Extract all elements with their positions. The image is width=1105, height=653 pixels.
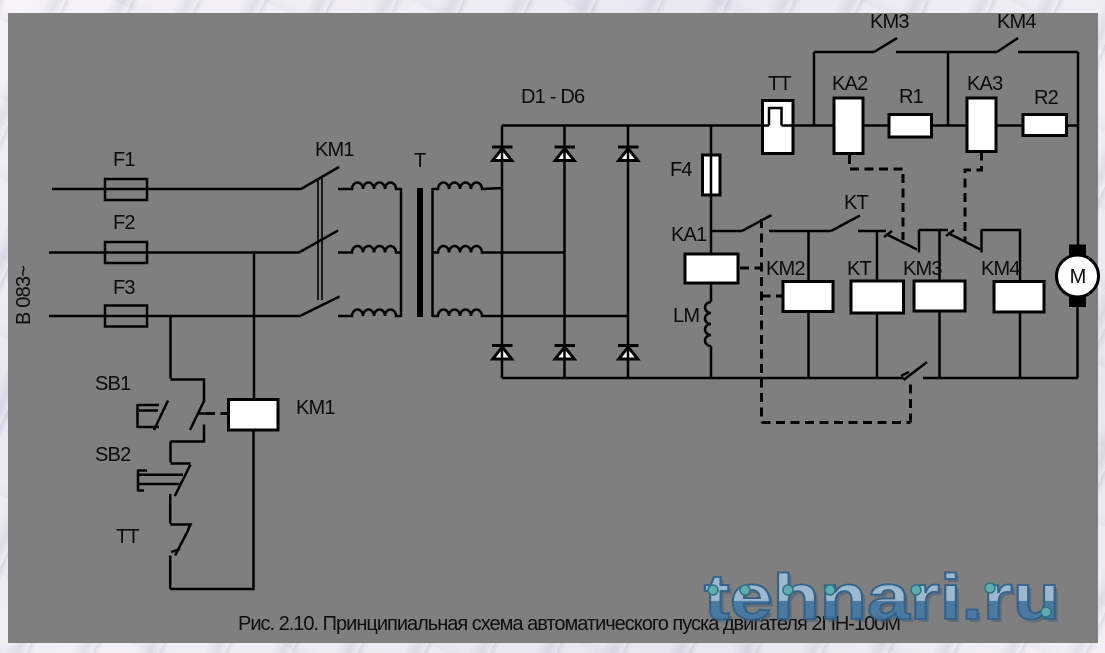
watermark tehnari.ru: [704, 561, 1063, 636]
dashed link KM2 stub: [762, 295, 784, 298]
button SB1 contact tick: [199, 412, 213, 415]
wire top branch right: [948, 51, 997, 54]
svg-text:SB2: SB2: [95, 444, 131, 466]
label TT bottom: [116, 526, 139, 548]
coil KM4: [994, 282, 1044, 313]
contact TT blade: [171, 530, 189, 556]
rectifier column 2: [563, 126, 566, 379]
button SB2 blade: [175, 465, 191, 497]
diode D3: [618, 147, 639, 161]
svg-text:KT: KT: [844, 192, 869, 214]
contact KM4 blade: [997, 38, 1018, 52]
contact KM3-NC blade: [884, 231, 917, 250]
svg-text:F4: F4: [670, 159, 692, 181]
label KT coil: [847, 258, 872, 280]
wire F2 to KM1 coil: [253, 253, 256, 400]
dashed link KA3: [965, 152, 982, 243]
transformer T primary winding 1: [338, 183, 401, 190]
wire KM3 to bus: [938, 311, 941, 378]
fuse F1: [105, 179, 147, 200]
wire KM3-NC jog: [919, 230, 940, 281]
label KA2: [832, 73, 868, 95]
label SB1: [95, 373, 131, 395]
svg-text:T: T: [414, 150, 426, 172]
svg-text:F2: F2: [113, 212, 135, 234]
button SB2 top jog: [171, 462, 191, 465]
wire top branch end: [1018, 51, 1078, 54]
resistor R2: [1023, 115, 1067, 136]
transformer T core: [417, 188, 423, 317]
dashed link KA1: [760, 219, 763, 423]
motor M brush top: [1069, 245, 1086, 256]
svg-text:KM3: KM3: [870, 11, 909, 33]
wire phase1 to KM1: [147, 188, 301, 191]
wire TT left stub: [761, 124, 769, 127]
rectifier top bus: [502, 124, 769, 127]
svg-text:KM3: KM3: [903, 258, 942, 280]
inductor LM: [705, 302, 711, 346]
wire LM to bus: [710, 346, 713, 378]
wire top branch mid: [896, 51, 948, 54]
label F1: [113, 149, 135, 171]
watermark screws: [708, 583, 1051, 617]
resistor R1: [889, 115, 932, 138]
relay KA1 coil: [685, 254, 738, 283]
wire top branch drop: [947, 52, 950, 126]
diode D2: [555, 147, 576, 161]
contactor KM1 blade1: [301, 167, 339, 189]
label T: [414, 150, 426, 172]
label KT switch: [844, 192, 869, 214]
fuse F3: [105, 306, 147, 327]
wire KM2 coil riser: [807, 231, 810, 282]
caption Рис 2.10: [238, 613, 900, 635]
rectifier column 3: [627, 126, 630, 379]
button SB1 actuator: [138, 404, 160, 428]
motor M brush bottom: [1069, 297, 1086, 308]
label TT top: [768, 73, 791, 95]
svg-text:F1: F1: [113, 149, 135, 171]
label KM4 coil: [981, 258, 1020, 280]
wire F3 to SB1: [169, 316, 172, 379]
bottom bus right part: [923, 377, 1078, 380]
svg-text:KA1: KA1: [671, 224, 707, 246]
diode D4: [492, 346, 513, 360]
transformer T primary winding 3: [338, 310, 401, 317]
wire phase2 left: [49, 251, 147, 254]
dashed link KA2: [850, 155, 904, 240]
wire motor riser: [1077, 52, 1080, 245]
wire KT coil riser: [876, 231, 879, 281]
label LM: [673, 305, 699, 327]
contact KT blade: [831, 216, 860, 232]
svg-text:F3: F3: [113, 277, 135, 299]
svg-text:TT: TT: [116, 526, 139, 548]
wire KM3 branch riser: [813, 52, 816, 126]
svg-text:В 083~: В 083~: [13, 266, 35, 325]
wire phase3 left: [49, 315, 147, 318]
svg-text:R1: R1: [899, 86, 924, 108]
transformer T secondary winding 2: [433, 246, 565, 252]
svg-text:KA2: KA2: [832, 73, 868, 95]
wire contact row mid2: [858, 230, 886, 233]
label F2: [113, 212, 135, 234]
rectifier bottom bus: [502, 377, 904, 380]
contact KM4-NC blade: [946, 230, 980, 249]
wire F4 through to KA1: [710, 126, 713, 255]
contact KM4-NC post: [980, 230, 983, 253]
button SB1 bottom jog: [171, 425, 205, 442]
dashed link SB1 to KM1: [206, 412, 228, 415]
label KM3 coil: [903, 258, 942, 280]
contact KA1 blade: [742, 215, 772, 231]
svg-text:KM2: KM2: [766, 258, 805, 280]
contact KM3 blade: [874, 38, 897, 52]
label R1: [899, 86, 924, 108]
wire phase3 to KM1: [147, 315, 301, 318]
diode D5: [555, 346, 576, 360]
wire diode crossings: [502, 147, 628, 360]
button SB1 blade left: [154, 401, 168, 431]
dashed link bottom riser: [909, 383, 912, 423]
svg-text:LM: LM: [673, 305, 699, 327]
wire bottom return: [170, 430, 253, 589]
thermal sensor TT body: [763, 101, 794, 154]
svg-text:KM4: KM4: [981, 258, 1020, 280]
wire phase1 left: [52, 188, 147, 191]
wire top branch left: [814, 51, 874, 54]
svg-text:KT: KT: [847, 258, 872, 280]
fuse F2: [105, 242, 147, 263]
svg-text:SB1: SB1: [95, 373, 131, 395]
fuse F4: [703, 155, 721, 195]
wire contact row mid1: [769, 230, 831, 233]
label KM2: [766, 258, 805, 280]
coil KT: [851, 281, 904, 313]
label KM3 top: [870, 11, 909, 33]
button SB2 actuator: [138, 470, 183, 492]
coil KM2: [783, 282, 833, 312]
label KA3: [967, 73, 1003, 95]
label KM4 top: [997, 11, 1036, 33]
contact KM3-NC post: [918, 230, 921, 253]
wire phase2 to KM1: [147, 251, 299, 254]
label KA1: [671, 224, 707, 246]
contactor KM1 blade3: [301, 297, 340, 316]
wire KT to bus: [876, 313, 879, 378]
transformer T secondary winding 1: [433, 183, 503, 190]
diode D1: [492, 147, 513, 161]
label M: [1070, 266, 1086, 288]
wire SB2 to TT: [169, 494, 172, 524]
wire KM4 to bus: [1019, 312, 1022, 378]
relay KA3 body: [967, 98, 996, 152]
transformer T primary winding 2: [338, 246, 401, 252]
relay KA2 body: [834, 98, 863, 154]
svg-text:KA3: KA3: [967, 73, 1003, 95]
wire segment between NC contacts: [940, 229, 949, 232]
transformer T secondary bus: [431, 188, 434, 317]
wire KM4-NC jog: [982, 230, 1021, 282]
label R2: [1034, 87, 1059, 109]
contact TT top bar: [170, 525, 190, 531]
wire KA1 to LM: [710, 283, 713, 302]
coil KM3: [914, 281, 965, 311]
label D1 - D6: [521, 86, 585, 108]
contactor KM1 linkage: [318, 178, 322, 300]
dashed link bottom run: [762, 421, 911, 424]
svg-text:R2: R2: [1034, 87, 1059, 109]
motor M body: [1057, 255, 1099, 297]
rectifier column 1: [501, 126, 504, 379]
label KM1 coil: [296, 397, 335, 419]
label SB2: [95, 444, 131, 466]
node B083 input text: [13, 266, 35, 325]
svg-text:KM4: KM4: [997, 11, 1036, 33]
label F4: [670, 159, 692, 181]
svg-text:tehnari.ru: tehnari.ru: [704, 561, 1060, 633]
dashed link KA1 coil stub: [740, 267, 762, 270]
svg-text:M: M: [1070, 266, 1086, 288]
diode D6: [618, 346, 639, 360]
contactor KM1 blade2: [299, 231, 338, 253]
label KM1 top: [315, 139, 354, 161]
button SB1 blade right: [190, 401, 204, 430]
wire SB1 to SB2: [169, 442, 172, 463]
wire KA1 contact row start: [711, 230, 742, 233]
transformer T primary star bar: [400, 188, 403, 317]
coil KM1: [229, 400, 279, 431]
svg-text:KM1: KM1: [296, 397, 335, 419]
transformer T secondary winding 3: [433, 310, 629, 317]
contact bottom-bus blade: [901, 362, 927, 380]
wire motor to bus: [1076, 307, 1079, 378]
thermal sensor TT heater notch: [769, 108, 782, 126]
label F3: [113, 277, 135, 299]
main DC bus right of TT: [782, 124, 1079, 127]
button SB1 top jog: [171, 380, 205, 403]
wire TT down: [169, 556, 172, 590]
wire KM2 to bus: [807, 312, 810, 379]
svg-text:D1 - D6: D1 - D6: [521, 86, 585, 108]
svg-text:TT: TT: [768, 73, 791, 95]
svg-text:KM1: KM1: [315, 139, 354, 161]
